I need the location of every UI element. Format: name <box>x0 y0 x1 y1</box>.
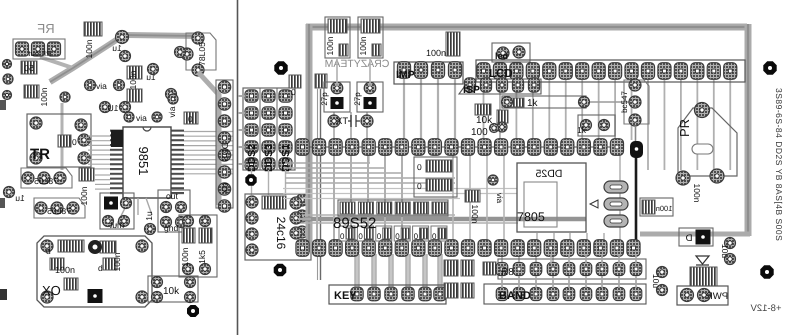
svg-text:bc547: bc547 <box>620 91 629 113</box>
svg-text:mut: mut <box>109 220 124 230</box>
svg-text:1k: 1k <box>527 98 539 109</box>
wire right bus vertical <box>745 24 752 236</box>
capacitor 100n C2 <box>84 22 102 58</box>
svg-text:DDS2: DDS2 <box>246 144 258 172</box>
wire bc547 to capsule <box>635 126 637 142</box>
svg-text:100n: 100n <box>84 39 94 58</box>
capacitor 100n C15 <box>465 190 480 224</box>
svg-text:R8: R8 <box>501 267 514 278</box>
svg-text:0: 0 <box>72 137 77 147</box>
svg-text:100n: 100n <box>426 48 446 58</box>
connector KEY J8 <box>329 285 446 304</box>
pad scatter top mid <box>60 92 70 102</box>
wire XT column traces <box>333 112 335 141</box>
regulator 7805 U7 <box>517 163 586 232</box>
wire top bus horizontal <box>306 24 747 31</box>
svg-text:100n: 100n <box>656 204 673 213</box>
svg-text:100n: 100n <box>180 247 190 266</box>
svg-text:89S52: 89S52 <box>333 215 376 232</box>
wire LCD column traces <box>483 80 485 140</box>
svg-text:BAND: BAND <box>499 290 531 302</box>
pad left small 3 <box>3 91 12 100</box>
bridge rectifier body <box>690 267 717 286</box>
svg-text:via: via <box>495 193 504 204</box>
via labels near DDS chip <box>124 94 178 123</box>
svg-text:100n: 100n <box>79 186 89 205</box>
wire RF diagonal bundle <box>50 35 198 82</box>
wire grid to divider stubs <box>238 95 245 97</box>
wire R8/BAND stubs <box>550 255 552 263</box>
svg-text:PWR: PWR <box>706 291 728 302</box>
svg-text:100n: 100n <box>692 184 702 203</box>
connector DDS1-3 grid <box>243 88 295 170</box>
svg-text:KEY: KEY <box>334 290 357 302</box>
resistor 10k R3 <box>475 104 493 126</box>
svg-text:gnd: gnd <box>164 223 178 233</box>
capacitor 27p C13 <box>353 82 383 112</box>
resistor 50 <box>21 61 37 74</box>
connector IMP J4 <box>394 62 463 84</box>
capacitor 100n C17 pads <box>676 169 724 203</box>
svg-text:100n: 100n <box>112 252 122 271</box>
svg-text:clk: clk <box>220 183 230 194</box>
resistor 0 Rdiv <box>289 75 301 97</box>
capacitor 100n C6 <box>79 168 94 205</box>
svg-text:+8-12V: +8-12V <box>750 303 782 314</box>
resistor array row above 89S52 <box>338 200 448 216</box>
via pad V2 <box>488 175 504 204</box>
mount hole H2 <box>763 61 776 74</box>
wire row1 link line <box>298 146 620 148</box>
connector 1U pads <box>100 102 131 114</box>
left edge pad stub C <box>0 289 7 300</box>
svg-text:78L05: 78L05 <box>47 206 71 216</box>
svg-text:10u: 10u <box>651 274 661 288</box>
svg-text:0: 0 <box>358 232 363 241</box>
capacitor 1u C5 (mirrored label) <box>4 187 25 204</box>
resistor 100 R4 <box>471 110 508 138</box>
svg-text:via: via <box>96 81 107 91</box>
resistor 1k5 + capacitor 100n block <box>179 215 217 277</box>
svg-text:78L05: 78L05 <box>34 176 58 186</box>
pad black capsule <box>630 141 643 158</box>
resistor 10k R-left <box>148 276 198 303</box>
diode D1 symbol <box>696 256 709 265</box>
wire grid to 24c16 stubs <box>251 170 253 195</box>
svg-text:DD25: DD25 <box>535 168 562 180</box>
potentiometer PR RV1 <box>677 103 737 177</box>
svg-text:100: 100 <box>471 127 488 138</box>
svg-text:100n: 100n <box>39 87 49 106</box>
connector PWR J7 <box>677 286 728 305</box>
mount hole H3 <box>245 174 256 185</box>
wire mid horizontal bus <box>298 217 586 222</box>
pad left small 2 <box>3 60 12 69</box>
regulator 78L05 U3 (mirrored) <box>21 168 72 188</box>
wire 9851 left fanout <box>88 135 110 137</box>
via pad pair with label <box>85 80 125 92</box>
mount hole H6 <box>760 265 773 278</box>
svg-text:1U: 1U <box>108 103 119 113</box>
wire left bus vertical <box>306 24 313 252</box>
svg-text:3S89-6S-84 DD2S YB 8AS[4B S00S: 3S89-6S-84 DD2S YB 8AS[4B S00S <box>774 88 784 241</box>
wire 9851 right fanout <box>184 131 233 133</box>
wire row2 stubs to 7805 <box>536 233 538 241</box>
mount hole H1 <box>274 61 287 74</box>
capacitor 100n C1 <box>24 85 49 106</box>
svg-text:27p: 27p <box>353 92 362 106</box>
svg-text:100n: 100n <box>55 265 75 275</box>
connector BAND J9 <box>444 283 646 304</box>
resistor network R8 <box>444 259 646 279</box>
capacitor 100n C16 <box>640 198 673 216</box>
resistor 0 row labels <box>339 226 447 241</box>
resistor 0 pair block <box>414 157 457 197</box>
svg-text:0: 0 <box>414 232 419 241</box>
wire cap stubs <box>336 58 338 87</box>
svg-text:100n: 100n <box>128 70 138 89</box>
wire KEY column traces <box>354 254 356 289</box>
regulator 78L05 U2 <box>181 32 216 76</box>
IC 9851 U1 DDS <box>110 127 184 198</box>
svg-text:9851: 9851 <box>136 147 151 176</box>
svg-text:24c16: 24c16 <box>274 217 288 250</box>
capacitor 1u C7 <box>144 211 156 234</box>
left edge pad stub B <box>0 198 5 208</box>
mount hole H5 <box>187 305 199 317</box>
LED D2 <box>492 43 530 62</box>
wire 78L05 to clk bus <box>198 72 219 205</box>
svg-text:RF-out: RF-out <box>28 49 52 58</box>
capacitor 1u C4 <box>146 47 185 100</box>
svg-text:RF: RF <box>37 21 54 36</box>
svg-text:d: d <box>98 263 103 273</box>
regulator 78L05 U4 (mirrored) <box>34 198 85 218</box>
crystal XT Y1 <box>328 115 373 127</box>
IC 89S52 U6 DIP rows <box>296 139 640 257</box>
connector OUT/GND J3 <box>158 190 190 233</box>
connector ISP J6 <box>459 78 541 96</box>
wire DIP column traces <box>316 154 318 241</box>
left edge pad stub A <box>0 100 6 110</box>
svg-text:7805: 7805 <box>517 210 545 224</box>
svg-text:out: out <box>166 191 178 201</box>
board divider line <box>237 0 239 335</box>
transformer TR T1 <box>27 114 91 167</box>
svg-text:100n: 100n <box>325 36 335 55</box>
wire 9851 bottom fanout <box>116 198 130 226</box>
capacitor 1u with pad <box>112 31 130 62</box>
connector RF-out <box>13 39 65 59</box>
svg-text:0: 0 <box>432 232 437 241</box>
svg-text:PR: PR <box>677 119 692 137</box>
arrow to 7805 <box>590 200 598 208</box>
svg-text:0: 0 <box>340 232 345 241</box>
svg-text:XO: XO <box>42 283 61 298</box>
capacitor 10u C19 <box>720 238 736 265</box>
svg-text:0: 0 <box>417 162 422 172</box>
svg-text:1u: 1u <box>112 43 122 53</box>
svg-text:27p: 27p <box>320 92 329 106</box>
svg-text:0: 0 <box>377 232 382 241</box>
wire long horizontals mid <box>283 188 517 190</box>
capacitor 27p C12 <box>320 82 350 112</box>
svg-text:via: via <box>136 113 147 123</box>
transistor bc547 Q1 <box>620 79 649 126</box>
oscillator XO X1 <box>37 236 152 307</box>
svg-text:100n: 100n <box>470 205 480 224</box>
svg-text:1u: 1u <box>144 211 154 221</box>
IC 24c16 U5 <box>245 194 311 260</box>
svg-text:100n: 100n <box>358 36 368 55</box>
svg-text:d: d <box>46 246 51 256</box>
capacitor 100n C10 <box>325 17 350 58</box>
connector MUT J2 <box>100 193 134 230</box>
pad left small 1 <box>3 74 13 84</box>
capacitor 100n C11 <box>358 17 383 58</box>
capacitor 100n C3 <box>127 66 142 102</box>
svg-text:DDS: DDS <box>220 142 230 161</box>
svg-text:1k: 1k <box>577 125 587 135</box>
wire IMP column traces <box>403 79 405 140</box>
wire 1k to bc547 <box>590 101 632 103</box>
svg-text:IMP: IMP <box>396 69 415 81</box>
connector LCD J5 <box>476 60 745 82</box>
svg-text:50: 50 <box>24 63 34 73</box>
wire through TR <box>61 103 64 170</box>
resistor 1k R5 <box>577 115 615 136</box>
mount hole H4 <box>274 264 287 277</box>
svg-text:0: 0 <box>291 87 296 97</box>
wire bus stub x319 <box>317 89 319 280</box>
svg-text:DDS3: DDS3 <box>263 144 275 172</box>
wire BAND column traces <box>501 253 503 288</box>
svg-text:0: 0 <box>188 114 193 124</box>
svg-text:1k5: 1k5 <box>197 250 207 264</box>
left column pads <box>290 197 302 239</box>
wire right bus to power area <box>640 232 750 237</box>
svg-text:XT: XT <box>336 116 348 127</box>
pad 7805 tab capsules <box>604 181 628 193</box>
svg-text:0: 0 <box>417 181 422 191</box>
svg-text:ISP: ISP <box>463 84 480 96</box>
capacitor near bus <box>315 74 327 88</box>
svg-text:via: via <box>167 106 177 117</box>
svg-text:10u: 10u <box>720 244 730 258</box>
svg-text:10k: 10k <box>163 286 180 297</box>
wire nested bends bus <box>285 162 370 164</box>
svg-text:1u: 1u <box>15 193 25 203</box>
resistor 1k R2 <box>502 96 590 109</box>
IC 24c16 trace to MCU <box>298 218 311 220</box>
wire black net vertical <box>635 157 638 242</box>
svg-text:TR: TR <box>30 146 50 163</box>
svg-text:0: 0 <box>395 232 400 241</box>
svg-text:D: D <box>685 233 692 244</box>
capacitor 100n C14 <box>426 32 460 58</box>
resistor 0 R-left <box>184 112 198 124</box>
svg-text:78L05: 78L05 <box>197 42 207 66</box>
connector DDS/CLK column <box>216 80 233 212</box>
svg-text:CRAZYTEAM: CRAZYTEAM <box>325 58 390 70</box>
capacitor 10u C18 <box>651 267 668 296</box>
wire DIP column traces right half <box>452 154 454 241</box>
diode D1 <box>679 228 713 246</box>
